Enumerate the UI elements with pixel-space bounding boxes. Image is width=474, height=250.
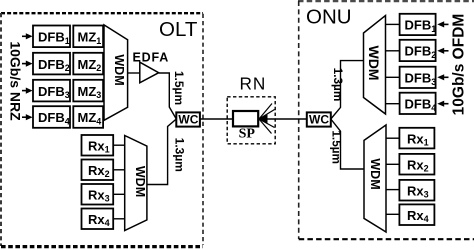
wire ONU WC up 1.3um to transmit WDM <box>331 61 364 119</box>
laser DFB3 (OLT) <box>33 80 70 102</box>
ONU dashed enclosure top edge <box>298 0 474 2</box>
receiver Rx1 (ONU) <box>399 128 434 149</box>
wire EDFA output 1.5um to WC <box>159 73 177 119</box>
arrow into DFB1 (ONU) <box>437 21 448 27</box>
receiver Rx4 (ONU) <box>399 204 434 225</box>
wire WDM to DFB1 (ONU) <box>386 23 400 25</box>
svg-text:10Gb/s OFDM: 10Gb/s OFDM <box>451 14 468 116</box>
svg-text:SP: SP <box>239 127 256 142</box>
multiplexer WDM (OLT transmit) <box>104 25 128 120</box>
svg-text:10Gb/s NRZ: 10Gb/s NRZ <box>7 41 23 121</box>
svg-text:EDFA: EDFA <box>133 50 170 64</box>
laser DFB2 (ONU) <box>400 40 437 61</box>
wavelength converter WC (OLT) <box>176 112 200 126</box>
demultiplexer WDM (OLT receive) <box>125 136 147 231</box>
OLT dashed enclosure bottom edge <box>1 245 203 248</box>
svg-text:WDM: WDM <box>368 158 382 189</box>
wire receive WDM 1.3um to WC <box>147 119 176 185</box>
RN dashed box <box>227 97 275 144</box>
wire WC to SP <box>200 118 233 120</box>
laser DFB4 (OLT) <box>33 106 70 128</box>
svg-text:WDM: WDM <box>366 46 382 81</box>
laser DFB1 (ONU) <box>400 14 437 35</box>
svg-text:ONU: ONU <box>306 6 352 29</box>
splitter fan line up steep <box>259 104 272 120</box>
wire WDM to DFB2 (ONU) <box>386 50 400 52</box>
arrow into DFB2 (ONU) <box>437 48 448 54</box>
wire Rx2 to receive WDM <box>113 169 125 171</box>
svg-text:WC: WC <box>178 113 198 127</box>
svg-text:RN: RN <box>240 74 267 94</box>
splitter fan line down shallow <box>259 119 275 128</box>
svg-text:WDM: WDM <box>133 166 147 197</box>
svg-text:1.5µm: 1.5µm <box>329 130 343 164</box>
arrow into DFB4 (OLT) <box>22 114 33 120</box>
splitter fan arrowhead <box>259 115 268 124</box>
wire WDM to Rx3 (ONU) <box>386 189 399 191</box>
receiver Rx3 (ONU) <box>399 180 434 201</box>
wire Rx3 to receive WDM <box>113 193 125 195</box>
receiver Rx1 (OLT) <box>82 135 114 156</box>
receiver Rx2 (ONU) <box>399 154 434 175</box>
wire WDM to DFB3 (ONU) <box>386 76 400 78</box>
modulator MZ1 <box>73 26 103 48</box>
receiver Rx3 (OLT) <box>82 184 114 205</box>
wavelength converter WC (ONU) <box>307 112 331 126</box>
wire Rx4 to receive WDM <box>113 218 125 220</box>
laser DFB4 (ONU) <box>400 93 437 114</box>
arrow into DFB2 (OLT) <box>22 61 33 67</box>
wire WDM to Rx1 (ONU) <box>386 137 399 139</box>
wire ONU WC down 1.5um to receive WDM <box>331 119 364 169</box>
receiver Rx2 (OLT) <box>82 160 114 181</box>
receiver Rx4 (OLT) <box>82 209 114 230</box>
splitter fan line down steep <box>259 119 272 134</box>
arrow into DFB1 (OLT) <box>22 33 33 39</box>
OLT dashed enclosure top edge <box>1 12 203 14</box>
svg-text:WC: WC <box>309 113 329 127</box>
multiplexer WDM (ONU transmit) <box>364 16 386 115</box>
laser DFB1 (OLT) <box>33 26 70 48</box>
ONU dashed enclosure left edge <box>298 1 300 239</box>
arrow into DFB3 (OLT) <box>22 88 33 94</box>
svg-text:WDM: WDM <box>112 54 126 85</box>
wire WDM to Rx2 (ONU) <box>386 163 399 165</box>
splitter fan line up shallow <box>259 110 275 120</box>
laser DFB2 (OLT) <box>33 53 70 75</box>
arrow into DFB3 (ONU) <box>437 74 448 80</box>
svg-text:OLT: OLT <box>159 18 198 41</box>
amplifier EDFA triangle <box>140 62 159 83</box>
wire WDM to DFB4 (ONU) <box>386 103 400 105</box>
modulator MZ3 <box>73 80 103 102</box>
wire WDM to Rx4 (ONU) <box>386 213 399 215</box>
modulator MZ4 <box>73 106 103 128</box>
splitter SP box <box>233 111 258 126</box>
wire WDM to EDFA <box>128 72 140 74</box>
svg-text:1.3µm: 1.3µm <box>331 68 345 102</box>
modulator MZ2 <box>73 53 103 75</box>
ONU dashed enclosure bottom edge <box>299 238 474 240</box>
svg-text:1.5µm: 1.5µm <box>172 71 186 105</box>
wire SP to ONU WC <box>259 118 307 120</box>
svg-text:1.3µm: 1.3µm <box>173 138 187 172</box>
OLT dashed enclosure left edge <box>0 13 2 246</box>
OLT dashed enclosure right edge <box>202 14 204 245</box>
wire Rx1 to receive WDM <box>113 144 125 146</box>
arrow into DFB4 (ONU) <box>437 101 448 107</box>
laser DFB3 (ONU) <box>400 67 437 88</box>
demultiplexer WDM (ONU receive) <box>364 125 386 232</box>
